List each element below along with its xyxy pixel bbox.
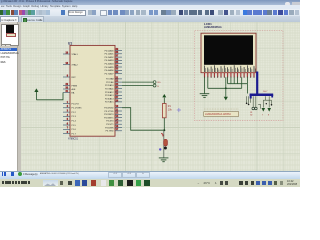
svg-text:7: 7 [262,114,264,116]
root design combo [68,10,87,17]
wire junction to pot [163,130,165,157]
node junction lower rail [225,87,227,89]
node junction [163,129,165,131]
menu bar [0,5,300,9]
svg-text:P0.7/AD7: P0.7/AD7 [105,72,115,75]
node terminal circles [250,107,257,116]
svg-text:P3.3/INT1: P3.3/INT1 [104,117,114,119]
ground arrow terminal [224,88,228,100]
svg-text:XTAL2: XTAL2 [72,63,79,66]
ground arrow terminal right 1 [262,108,266,112]
pot RV1 [159,133,167,150]
toolbar [0,9,300,17]
title bar [0,0,300,5]
wire LCD lower rail [208,77,242,88]
power VCC terminal (EA) [34,88,38,99]
cursor cross [177,108,181,112]
wire LCD upper rail [228,77,248,93]
devices header [0,46,17,48]
svg-text:P1.1/T2EX: P1.1/T2EX [72,108,83,110]
svg-text:P0.6/AD6: P0.6/AD6 [105,69,115,72]
svg-text:8: 8 [268,114,270,116]
svg-text:AT89C51: AT89C51 [68,137,79,140]
svg-text:PSEN: PSEN [72,85,78,87]
dashed selection box around LCD [195,30,283,120]
svg-text:E: E [158,86,160,88]
device list [0,48,17,171]
svg-text:P3.7/RD: P3.7/RD [106,131,114,133]
svg-text:P0.4/AD4: P0.4/AD4 [105,63,115,66]
svg-text:P2.2/A10: P2.2/A10 [105,84,114,87]
svg-text:RST: RST [72,77,77,79]
svg-text:P2.0/A8: P2.0/A8 [106,78,114,81]
wires below left bus drop [247,96,256,107]
ground below LCD [200,94,210,98]
svg-text:P3.4/T0: P3.4/T0 [106,121,114,123]
wire P2.1 to RS terminal [122,81,153,83]
wire LCD pin1 to ground [204,77,206,93]
wire P3.0 to junction [122,108,164,131]
svg-text:P3.1/TXD: P3.1/TXD [104,111,114,113]
svg-text:XTAL1: XTAL1 [72,53,79,56]
source code tab [21,16,45,24]
svg-text:P1.0/T2: P1.0/T2 [72,103,80,105]
svg-text:P3.5/T1: P3.5/T1 [106,124,114,126]
svg-text:P2.3/A11: P2.3/A11 [105,88,114,91]
bus [250,72,274,99]
node RS terminal [153,81,161,85]
svg-text:82: 82 [250,114,253,116]
svg-text:LGM12641BS1A 128X64: LGM12641BS1A 128X64 [205,113,231,116]
svg-text:P0.2/AD2: P0.2/AD2 [105,56,115,59]
resistor R1 [163,104,173,118]
ground arrow terminal right 2 [267,108,271,112]
svg-text:P0.5/AD5: P0.5/AD5 [105,66,115,69]
wires below right bus drop [263,96,271,107]
active tab: schematic capture [0,16,19,23]
preview window [1,24,19,46]
schematic SVG [0,0,300,187]
value text box [204,109,239,116]
svg-text:P2.6/A14: P2.6/A14 [105,97,114,100]
svg-text:P3.2/INT0: P3.2/INT0 [104,114,114,116]
left object selector panel [0,22,17,171]
svg-text:P2.5/A13: P2.5/A13 [105,94,114,97]
tab row [0,16,300,24]
svg-text:LGM12641BS1A: LGM12641BS1A [204,26,222,29]
svg-text:P0.1/AD1: P0.1/AD1 [105,53,115,56]
svg-text:P0.3/AD3: P0.3/AD3 [105,59,115,62]
svg-text:LCD1: LCD1 [204,22,212,26]
svg-text:P0.0/AD0: P0.0/AD0 [105,49,115,52]
wire EA to VCC [36,93,63,100]
canvas [20,22,301,171]
wire bend right of circles [258,105,260,109]
svg-text:P2.1/A9: P2.1/A9 [106,81,114,84]
svg-text:ALE: ALE [72,88,77,91]
microcontroller U1 [63,42,122,141]
node E terminal [153,84,159,88]
svg-text:10k: 10k [168,108,173,111]
wire P2.2 to E terminal [122,84,153,86]
status bar [0,171,300,180]
svg-text:P3.6/WR: P3.6/WR [105,127,114,129]
LCD LCD1 [201,22,256,78]
sheet border [19,22,22,171]
small buttons [1,44,7,49]
power VCC terminal above R1 [162,94,166,104]
svg-text:P3.0/RXD: P3.0/RXD [104,108,114,110]
ground [159,158,169,162]
svg-text:P2.7/A15: P2.7/A15 [105,101,114,104]
svg-text:P2.4/A12: P2.4/A12 [105,91,114,94]
taskbar [0,179,300,187]
svg-text:D0-7: D0-7 [263,91,268,93]
wire R1 to junction [163,118,165,130]
svg-text:RS: RS [158,82,162,84]
